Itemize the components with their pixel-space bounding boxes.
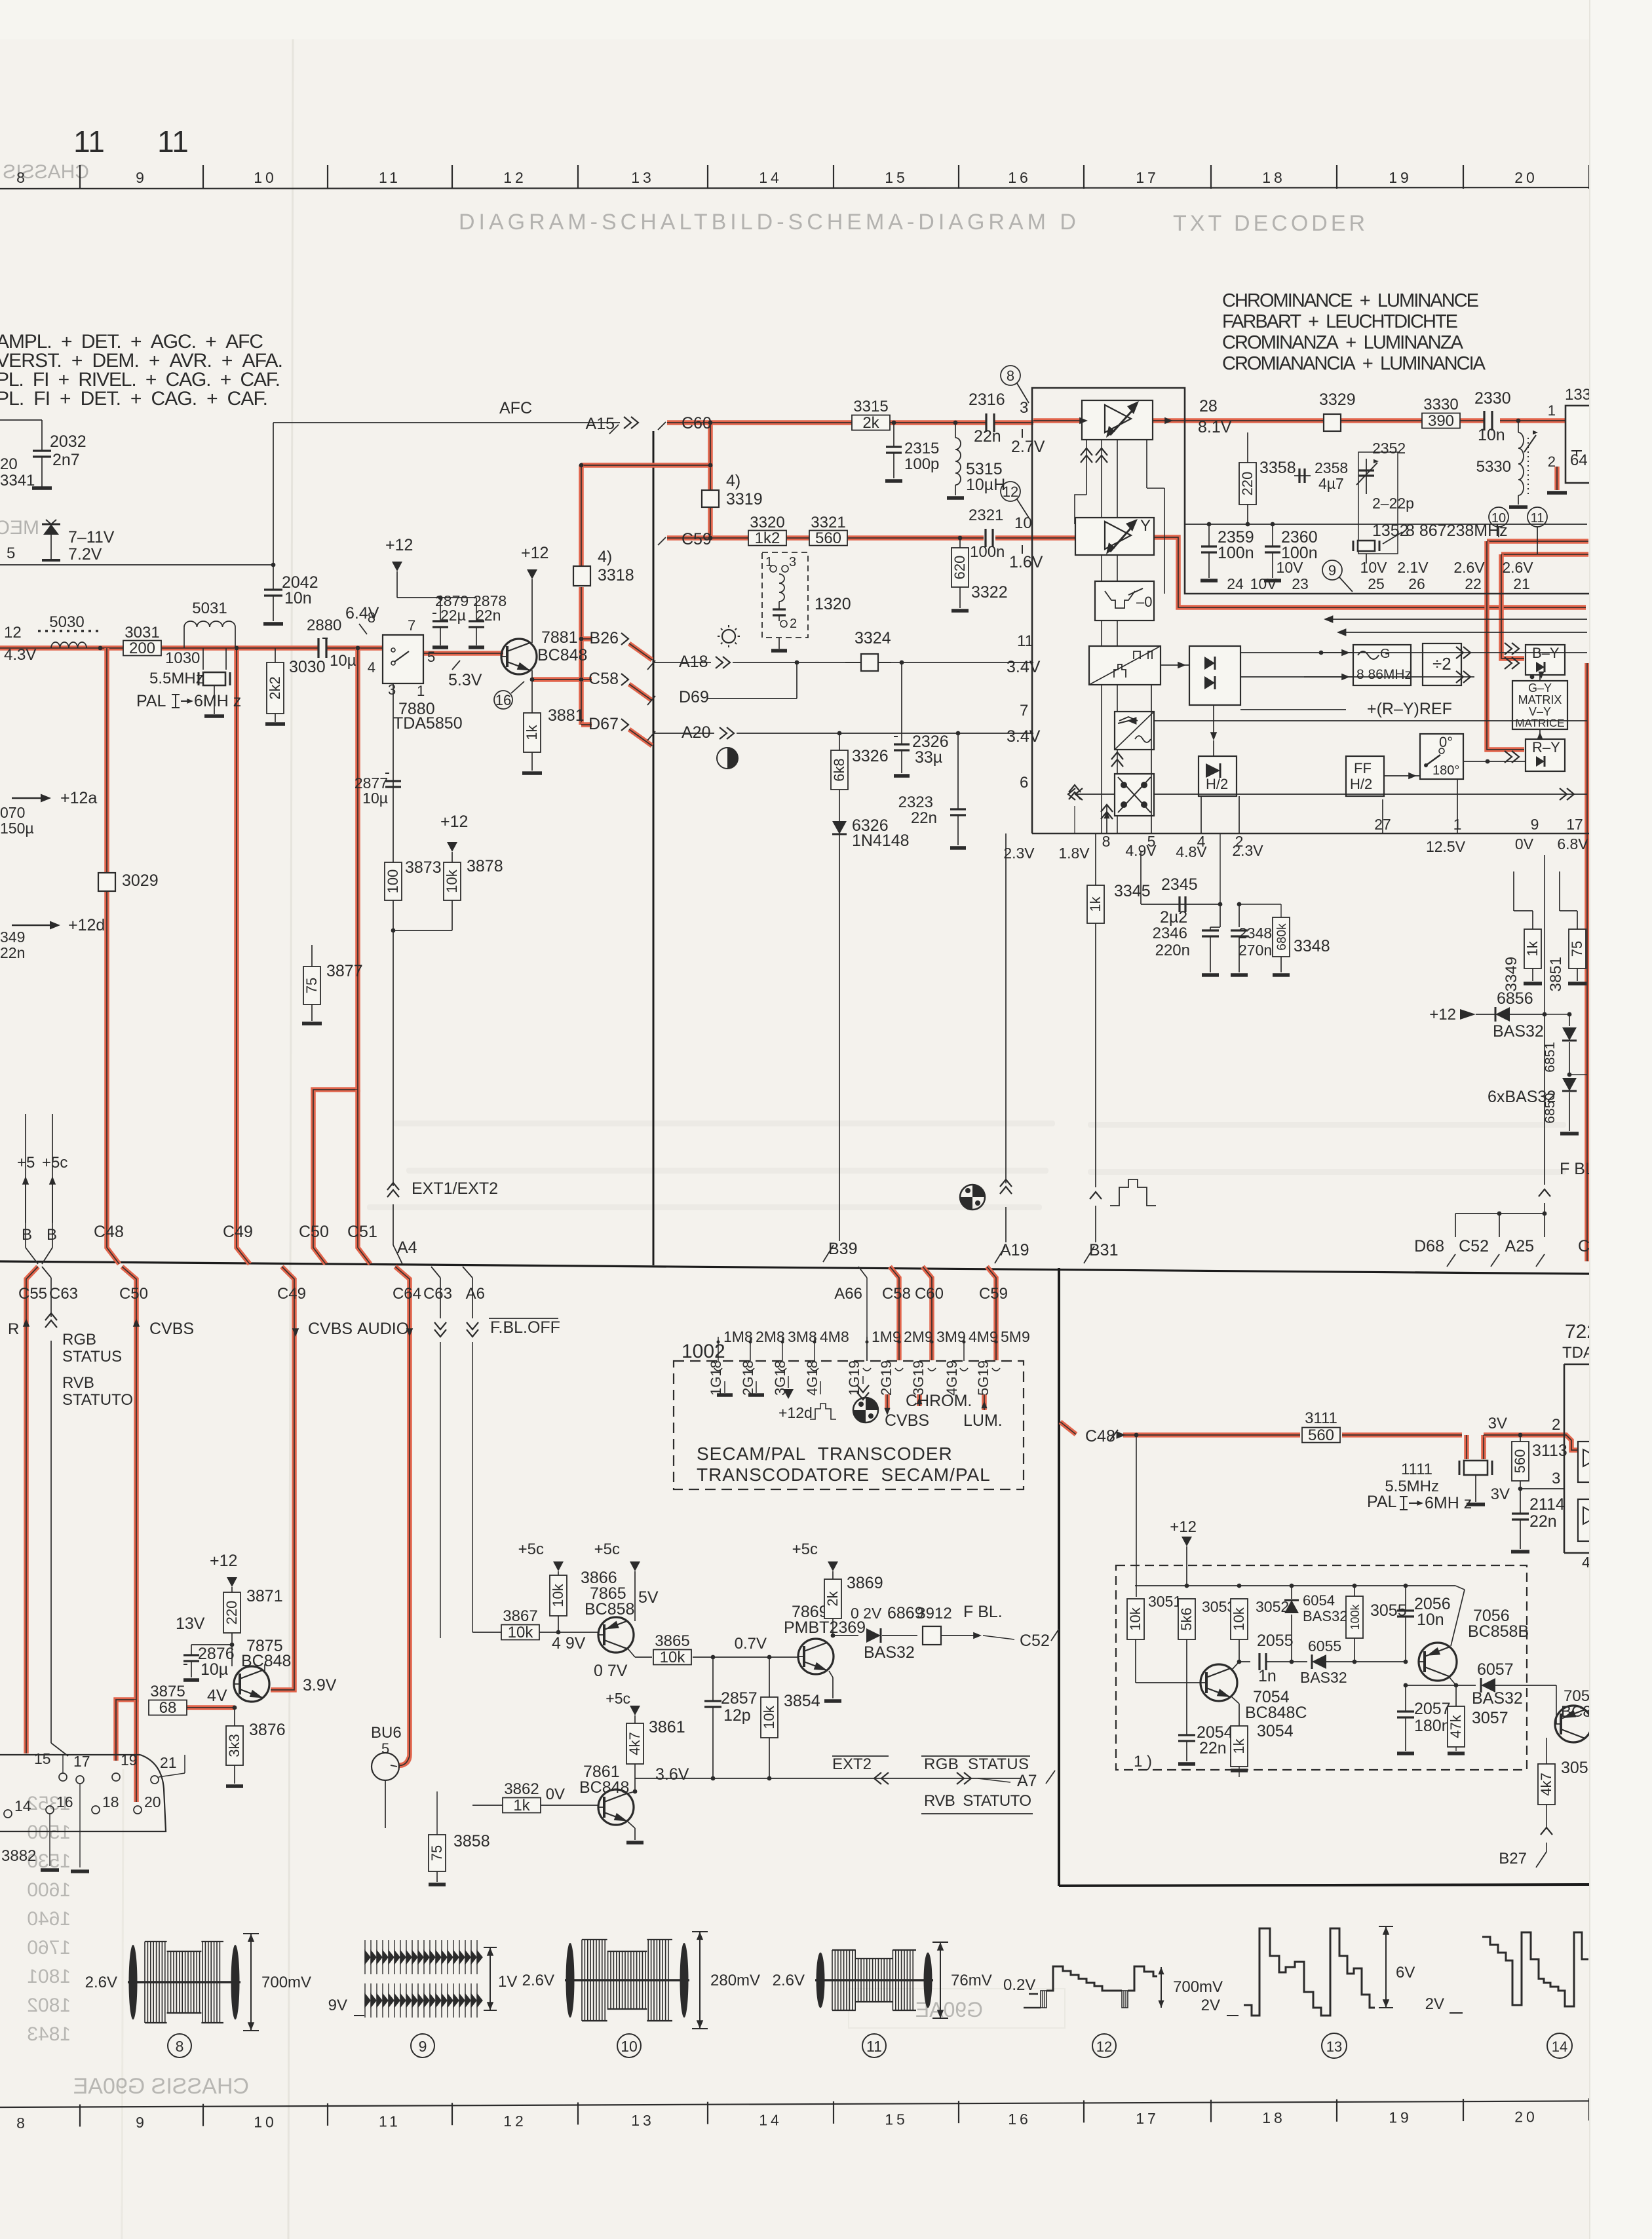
resistor 3349 1k [1532,911,1533,929]
svg-text:2032: 2032 [50,432,86,451]
svg-text:3: 3 [1552,1470,1560,1487]
svg-text:C58: C58 [588,670,619,688]
svg-text:10k: 10k [444,869,460,892]
red net CVBS main horizontal [0,645,318,651]
svg-text:0V: 0V [1515,835,1534,852]
svg-text:C50: C50 [119,1285,148,1303]
svg-text:2358: 2358 [1315,459,1348,476]
svg-text:3349: 3349 [1503,957,1520,991]
chroma decoder IC outline [1032,388,1590,833]
svg-text:8: 8 [368,609,375,626]
svg-text:64: 64 [1570,451,1588,469]
svg-text:2k: 2k [824,1590,841,1606]
svg-text:17: 17 [73,1753,90,1770]
resistor 3058 4k7 [1546,1738,1547,1764]
red net amp1 output to delay line [1153,418,1484,423]
wire C48 drop to 7054 [1136,1435,1137,1597]
svg-text:2857: 2857 [721,1689,758,1708]
svg-text:8: 8 [16,169,28,186]
R-Y demod block [1526,739,1565,771]
svg-text:17: 17 [1136,169,1159,186]
resistor 3873 100 [385,862,402,900]
connector grounds [71,1869,89,1873]
svg-text:4µ7: 4µ7 [1318,475,1344,492]
svg-text:1.6V: 1.6V [1009,553,1043,571]
svg-text:100p: 100p [904,455,939,473]
svg-text:D67: D67 [588,715,619,733]
rail dashed box [1135,1585,1455,1586]
svg-text:1640: 1640 [27,1908,71,1930]
svg-text:1802: 1802 [27,1995,71,2016]
svg-text:10V: 10V [1250,575,1278,592]
svg-text:6xBAS32: 6xBAS32 [1488,1088,1556,1106]
svg-text:B26: B26 [590,629,619,647]
wire top right rail [1185,524,1587,525]
svg-text:MECH: MECH [0,517,39,539]
svg-text:1: 1 [1548,402,1556,419]
svg-text:2315: 2315 [904,440,939,457]
svg-text:2330: 2330 [1474,389,1511,408]
svg-text:10k: 10k [660,1649,686,1666]
svg-text:3318: 3318 [598,566,634,584]
svg-text:A6: A6 [466,1285,485,1303]
resistor 3345 1k [1095,833,1096,885]
svg-text:2: 2 [1548,453,1556,470]
svg-text:3052: 3052 [1256,1598,1289,1615]
red net AUDIO C64 drop [395,1267,410,1765]
svg-text:5: 5 [7,545,15,562]
wire B column jog [25,1114,26,1248]
svg-text:3876: 3876 [249,1721,286,1739]
svg-text:3: 3 [1020,399,1028,417]
svg-text:4V: 4V [207,1687,227,1705]
svg-text:1843: 1843 [27,2023,71,2045]
wire 7058 base [1556,1685,1557,1724]
svg-text:B39: B39 [828,1240,857,1258]
svg-text:2316: 2316 [969,391,1005,409]
svg-text:3111: 3111 [1305,1409,1337,1427]
capacitor 2857 12p [712,1657,714,1701]
wire AFC riser [273,423,274,565]
svg-text:33µ: 33µ [915,748,942,767]
red net R C55 drop [26,1267,38,1753]
resistor 3029 box [98,873,115,891]
ground delay line [1547,491,1567,495]
svg-text:BAS32: BAS32 [864,1643,915,1662]
resistor 3030 2k2 [275,648,276,662]
wire FBL column [1544,855,1545,1014]
svg-text:9: 9 [1328,562,1336,579]
resistor 3875 68 [149,1700,187,1715]
svg-text:+5c: +5c [605,1690,630,1707]
svg-text:560: 560 [815,529,841,547]
svg-text:4.8V: 4.8V [1176,843,1207,860]
svg-text:1760: 1760 [27,1937,71,1959]
svg-text:3319: 3319 [726,490,763,508]
svg-text:8: 8 [16,2115,28,2132]
red net right edge vertical [1585,663,1590,1261]
black level clamp block [1095,581,1154,621]
svg-text:+12d: +12d [68,916,105,934]
ground 7861 emitter [628,1822,635,1828]
svg-text:2114: 2114 [1529,1495,1565,1514]
zener diode 7-11V [50,524,52,560]
svg-text:3330: 3330 [1423,396,1458,413]
connector pin 21 [151,1776,159,1784]
resistor 3057 47k [1455,1685,1457,1706]
wire sandcastle out [1161,664,1189,666]
svg-text:47k: 47k [1448,1714,1464,1738]
pin 4M8 [814,1337,815,1361]
capacitor 2880 10 micro [317,638,319,658]
svg-text:1M8: 1M8 [723,1328,753,1345]
svg-text:22n: 22n [911,809,937,827]
svg-text:BC858B: BC858B [1468,1622,1529,1641]
diode 6869 BAS32 [833,1635,858,1636]
svg-text:B: B [22,1226,32,1244]
capacitor 2054 22n [1178,1734,1195,1736]
waveform 8 measure arrow [250,1934,252,2031]
bottom-right block left border [1058,1268,1060,1886]
red net C48 drop [107,648,119,1264]
svg-text:3057: 3057 [1472,1709,1508,1727]
waveform 11 circled number [862,2034,886,2057]
svg-text:2.6V: 2.6V [773,1972,805,1989]
resistor 3876 3k3 [234,1708,235,1726]
svg-text:0V: 0V [546,1786,565,1803]
svg-text:3031: 3031 [125,624,159,641]
svg-text:14: 14 [1552,2038,1567,2055]
svg-text:PL. FI + DET. + CAG. +: PL. FI + DET. + CAG. + CAF. [0,388,268,410]
svg-text:RVB: RVB [62,1374,94,1392]
svg-text:26: 26 [1408,575,1425,592]
svg-text:150µ: 150µ [0,820,34,837]
svg-text:1k: 1k [1231,1738,1247,1753]
circled 10 callout [1489,507,1508,527]
resistor 3315 2k [852,415,890,431]
pin 2M9 [898,1341,901,1344]
svg-text:4G18: 4G18 [804,1360,820,1396]
svg-text:5: 5 [427,649,435,665]
svg-text:9V: 9V [328,1997,347,2014]
svg-text:BC848: BC848 [579,1778,629,1797]
svg-text:18: 18 [102,1793,119,1810]
svg-text:5G19: 5G19 [975,1360,991,1396]
svg-text:9: 9 [419,2038,427,2055]
diode 6850 [1567,1073,1572,1077]
secam dot symbol mid [960,1185,985,1210]
svg-text:PAL: PAL [136,692,166,710]
svg-text:100n: 100n [1281,544,1318,562]
waveform 13 measure [1385,1926,1387,2008]
svg-text:CROMIANANCIA + LUMINANCIA: CROMIANANCIA + LUMINANCIA [1222,353,1486,374]
svg-text:Y: Y [1140,517,1151,535]
crystal 1030 5.5MHz [202,648,204,670]
svg-text:20: 20 [1514,169,1538,186]
delay line 1330 box [1566,406,1652,483]
svg-text:20: 20 [144,1793,161,1810]
red net C60 luminance row [667,420,986,425]
waveform 12 measure [1161,1967,1162,2008]
circled 9 callout [1322,560,1342,580]
svg-text:2346: 2346 [1153,925,1187,942]
svg-text:17: 17 [1136,2110,1159,2127]
transistor 7881 BC848 [501,639,537,674]
red net B26 C58 D67 column [581,463,710,468]
svg-text:CROMINANZA + LUMINANZA: CROMINANZA + LUMINANZA [1222,332,1464,353]
svg-text:10k: 10k [1231,1607,1247,1630]
inductor 5031 bridge [183,627,185,648]
label C60 [658,422,666,430]
wire phase to R-Y arrows [1463,761,1526,762]
svg-text:2: 2 [790,617,797,631]
svg-text:F BL.: F BL. [963,1603,1003,1621]
svg-text:2k2: 2k2 [267,676,283,699]
wire 7865 emitter to 3865 [628,1649,635,1657]
svg-text:12: 12 [503,2113,527,2130]
svg-text:4.3V: 4.3V [4,646,36,664]
svg-text:C59: C59 [682,530,712,548]
svg-text:620: 620 [951,556,968,580]
svg-text:C52: C52 [1459,1237,1489,1255]
svg-text:3877: 3877 [326,962,363,980]
svg-text:1k: 1k [513,1797,530,1814]
red stub 2G19 chrom [885,1394,890,1410]
svg-text:12: 12 [4,624,22,641]
red net BU6 audio link [398,1756,410,1765]
bottom ruler line [0,2101,1652,2107]
svg-text:22n: 22n [476,607,501,624]
svg-text:2M9: 2M9 [904,1328,933,1345]
svg-text:4M8: 4M8 [820,1328,849,1345]
resistor 3348 680k [1280,904,1282,917]
svg-text:A4: A4 [397,1238,417,1257]
svg-text:22n: 22n [1529,1512,1557,1531]
arrow 5G19 up [981,1401,987,1408]
ground 1G18 [724,1381,725,1393]
svg-text:1M9: 1M9 [872,1328,901,1345]
svg-text:2352: 2352 [1372,440,1406,457]
svg-text:18: 18 [1262,2109,1286,2126]
svg-text:CHROMINANCE + LUMINANCE: CHROMINANCE + LUMINANCE [1222,290,1479,311]
svg-text:2321: 2321 [969,507,1003,524]
waveform 8 carrier hatch [145,1942,220,2023]
junction main line [98,646,103,651]
svg-text:AUDIO: AUDIO [357,1320,409,1338]
vertical wires inside IC [1106,806,1107,833]
svg-text:68: 68 [159,1699,177,1717]
demodulator block [1189,646,1240,705]
svg-text:680k: 680k [1275,923,1289,951]
wire 7880 pin3 column [393,683,394,930]
resistor 3320 1k2 [748,531,786,546]
B-Y demod block [1526,645,1565,675]
waveform 14 circled number [1547,2033,1572,2058]
wire matrix vertical arrows [1539,675,1541,681]
red net 1330 pin2 ground stub [1554,467,1560,490]
red stub C59 secam pin [987,1267,996,1360]
svg-text:7.2V: 7.2V [68,545,102,564]
svg-text:+5c: +5c [42,1154,67,1172]
svg-text:10k: 10k [1127,1607,1143,1630]
svg-text:C55: C55 [18,1285,47,1303]
resistor 3878 10k [451,900,453,930]
svg-text:C59: C59 [979,1285,1008,1303]
svg-text:1030: 1030 [165,649,200,667]
svg-text:10n: 10n [284,589,312,607]
svg-text:1: 1 [765,555,773,569]
svg-text:1k2: 1k2 [755,529,780,547]
wire A66 [858,1267,867,1278]
svg-text:3315: 3315 [853,398,888,415]
wire B27 [1546,1805,1547,1828]
svg-text:C63: C63 [49,1285,78,1303]
svg-text:75: 75 [1569,941,1585,957]
svg-text:22µ: 22µ [440,607,466,624]
svg-text:5V: 5V [638,1588,659,1607]
red stub B26 [581,636,592,641]
svg-text:2323: 2323 [898,794,933,811]
svg-text:560: 560 [1308,1426,1334,1444]
resistor 3862 1k [503,1798,541,1813]
svg-text:4): 4) [598,548,612,566]
wire 3113 to pin3 [1520,1488,1565,1489]
svg-text:1111: 1111 [1401,1461,1432,1478]
svg-text:6k8: 6k8 [831,758,847,781]
red stub D67 [581,722,592,727]
svg-text:A15: A15 [586,415,615,433]
resistor 3865 10k [653,1650,691,1665]
svg-text:270n: 270n [1239,942,1272,959]
svg-text:C64: C64 [393,1285,421,1303]
svg-text:SECAM/PAL TRANSCODER: SECAM/PAL TRANSCODER [697,1444,953,1464]
svg-text:3861: 3861 [649,1718,685,1736]
svg-text:15: 15 [885,169,908,186]
capacitor 2346 220n [1202,929,1219,931]
svg-text:H/2: H/2 [1350,776,1372,792]
svg-text:B: B [47,1226,57,1244]
svg-text:C60: C60 [915,1285,944,1303]
svg-text:100k: 100k [1349,1603,1362,1630]
diode 6054 BAS32 [1291,1586,1292,1599]
svg-text:14: 14 [759,2111,782,2128]
svg-text:2V: 2V [1201,1997,1220,2014]
svg-text:PAL: PAL [1367,1493,1396,1511]
svg-text:0.7V: 0.7V [735,1635,767,1653]
resistor 3324 box [845,662,861,663]
svg-text:0 7V: 0 7V [594,1662,628,1680]
svg-text:12: 12 [1096,2038,1112,2055]
svg-text:2G18: 2G18 [740,1360,756,1396]
svg-text:1G18: 1G18 [708,1360,724,1396]
svg-text:+12a: +12a [60,789,97,807]
svg-text:2.3V: 2.3V [1003,845,1035,862]
svg-text:6856: 6856 [1497,989,1533,1008]
svg-text:700mV: 700mV [261,1974,311,1991]
svg-text:AFC: AFC [499,399,532,417]
svg-text:7: 7 [408,617,415,634]
svg-text:6054: 6054 [1303,1592,1335,1609]
transistor 7861 BC848 [598,1789,634,1825]
resistor 3055 100k [1346,1596,1363,1638]
connector pin 18 [92,1806,100,1814]
svg-text:1: 1 [417,683,425,699]
svg-text:15: 15 [885,2111,908,2128]
resistor 3051 10k [1136,1597,1137,1599]
svg-text:3.6V: 3.6V [655,1765,689,1784]
svg-text:0.2V: 0.2V [1003,1976,1035,1994]
capacitor 2042 10n [271,563,276,567]
svg-text:2M8: 2M8 [756,1328,785,1345]
amp block 7220 lower [1578,1499,1604,1541]
svg-text:6055: 6055 [1308,1637,1341,1655]
inductor 5330 adjustable [1516,419,1521,423]
capacitor 2321 100n [984,529,986,547]
svg-text:3030: 3030 [289,658,326,676]
H2 diode block [1199,756,1237,796]
svg-text:+12: +12 [440,813,468,831]
resistor 3326 6k8 [839,733,840,750]
red net into transistor 7881 [422,651,503,656]
waveform 9 measure arrow [490,1947,491,2010]
bottom-right block bottom border [1059,1885,1590,1886]
svg-text:3871: 3871 [246,1587,283,1605]
svg-text:A7: A7 [1017,1772,1037,1790]
junction 3878 [391,928,396,933]
capacitor 2878 22n [476,598,477,621]
svg-text:C48: C48 [94,1223,124,1241]
red collector row 7875 [264,1664,265,1671]
resistor 3031 200 [123,641,161,656]
svg-text:3: 3 [789,555,796,569]
label C59 [658,537,666,545]
svg-text:RGB: RGB [62,1331,96,1349]
svg-text:12: 12 [503,169,527,186]
svg-text:13: 13 [631,2112,655,2129]
svg-text:10n: 10n [1478,426,1505,444]
wire 7056 emitter [1455,1586,1465,1590]
svg-text:MATRIX: MATRIX [1518,693,1562,706]
svg-text:G–Y: G–Y [1528,681,1552,695]
sun symbol brightness [722,630,735,643]
waveform 8 envelope lenses [129,1945,138,2019]
svg-text:0 2V: 0 2V [851,1605,882,1622]
svg-text:BC848: BC848 [241,1652,291,1670]
wire 7881 emitter [531,670,533,679]
inductor 5030 [51,642,86,648]
svg-text:133: 133 [1565,386,1591,404]
filter 1320 dashed box [762,552,808,638]
divide by 2 block [1423,643,1461,685]
svg-text:BC848: BC848 [537,646,587,664]
svg-text:CHASSIS G90AE: CHASSIS G90AE [73,2074,249,2099]
wire 7861 collector to A7 row [628,1791,635,1793]
burst waveform glyph [1110,1179,1156,1206]
secam transcoder dashed box [674,1361,1024,1489]
board divider vertical mid [653,431,655,1265]
waveform 10 measure arrow [699,1932,701,2029]
resistor 3318 box [573,566,590,586]
arrow bundle up into amps [1086,440,1087,495]
resistor 3329 box [1324,414,1341,431]
crystal 1352 [1353,541,1354,551]
waveform 11 envelope lenses [816,1953,825,2008]
svg-text:+12: +12 [385,536,413,554]
svg-text:16: 16 [56,1793,73,1810]
junction dots on red [579,463,584,468]
resistor 3052 10k [1231,1599,1248,1639]
svg-text:21: 21 [160,1754,177,1771]
